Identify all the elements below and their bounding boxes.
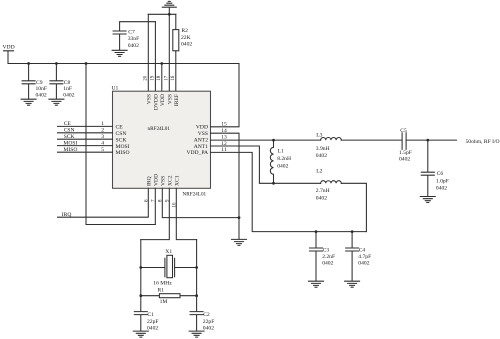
svg-text:CE: CE [116,125,124,131]
capacitor C3 [310,232,323,281]
svg-text:MISO: MISO [63,147,77,153]
svg-text:CE: CE [64,121,72,127]
wire top ground bus [148,13,176,15]
svg-text:MOSI: MOSI [63,140,77,146]
svg-text:VDD: VDD [160,94,166,106]
wire ANT1 net [211,146,321,183]
op-amp U1 body (nRF24L01 IC) [113,91,211,188]
wire RF output [406,139,456,141]
svg-text:22pF: 22pF [203,319,215,325]
svg-text:C5: C5 [400,128,407,134]
svg-text:18: 18 [157,75,162,81]
capacitor C7 [113,22,155,50]
svg-text:0402: 0402 [316,153,327,159]
svg-text:1nF: 1nF [63,86,72,92]
svg-text:1M: 1M [160,299,168,305]
svg-text:ANT2: ANT2 [194,137,208,143]
wire MOSI [58,145,113,147]
wire crystal left leg [140,240,142,312]
wire pin 7 VDD stub [154,188,156,224]
svg-text:nRF24L01: nRF24L01 [148,126,171,132]
svg-text:1: 1 [101,121,104,127]
svg-text:4.7pF: 4.7pF [358,254,371,260]
svg-text:X1: X1 [165,249,172,255]
svg-text:XC2: XC2 [167,175,173,186]
svg-text:16: 16 [171,75,176,81]
capacitor C5 [402,133,406,150]
capacitor C9 [22,64,35,100]
node PA-C3 [315,230,318,233]
svg-text:C3: C3 [323,247,330,253]
wire pin 8 VSS to ground node [162,188,239,217]
svg-text:VSS: VSS [160,176,166,186]
svg-text:33nF: 33nF [128,36,140,42]
wire pin 15 VDD to rail [211,64,240,127]
ground under C1 [133,331,148,337]
node rail-drop [85,62,88,65]
wire pin 10 XC1 [176,188,196,239]
svg-text:C9: C9 [36,80,43,86]
wire L2 to PA net [341,183,366,231]
wire VDD drop to pin 7 [86,64,155,225]
resistor R2 [175,14,177,29]
svg-text:VDD_PA: VDD_PA [186,150,208,156]
svg-text:0402: 0402 [203,326,214,332]
svg-text:SCK: SCK [116,137,127,143]
svg-text:20: 20 [144,75,149,81]
svg-text:0402: 0402 [358,261,369,267]
svg-text:5: 5 [101,147,104,153]
svg-text:U1: U1 [112,86,119,92]
svg-text:0402: 0402 [277,163,288,169]
ground under C2 [189,331,204,337]
svg-text:C4: C4 [359,247,366,253]
svg-text:DVDD: DVDD [153,94,159,110]
node rail-C8 [55,62,58,65]
svg-text:0402: 0402 [36,92,47,98]
svg-text:8.2nH: 8.2nH [277,156,291,162]
svg-text:C2: C2 [203,312,210,318]
svg-text:ANT1: ANT1 [194,144,208,150]
node X1-right [195,266,198,269]
svg-text:2: 2 [101,128,104,134]
svg-text:12: 12 [221,141,227,147]
wire ANT2 net [211,139,321,141]
svg-text:19: 19 [151,75,156,81]
capacitor C2 [190,312,203,331]
svg-text:VDD: VDD [153,174,159,186]
node ANT2-L1 [272,139,275,142]
svg-text:L2: L2 [316,168,322,174]
svg-text:VDD: VDD [3,45,15,51]
svg-text:17: 17 [165,75,170,81]
svg-text:XC1: XC1 [174,175,180,186]
node rail-pin18 [160,62,163,65]
svg-text:0402: 0402 [63,92,74,98]
svg-text:0402: 0402 [436,186,447,192]
node C5-C6 [426,139,429,142]
wire VDD rail [8,63,239,65]
svg-text:VSS: VSS [146,94,152,104]
svg-text:2.2nF: 2.2nF [322,254,335,260]
svg-text:11: 11 [221,147,227,153]
inductor L1 [270,140,273,183]
svg-text:IREF: IREF [174,94,180,106]
node VSS-ground [238,216,241,219]
ground under C4 [345,281,360,287]
svg-text:0402: 0402 [147,326,158,332]
svg-text:IRQ: IRQ [146,176,152,186]
ground under C3 [309,281,324,287]
node rail-C9 [27,62,30,65]
wire pin 17 VSS to top ground [168,14,170,91]
svg-text:VDD: VDD [196,125,208,131]
svg-text:0402: 0402 [181,41,192,47]
wire SCK [58,138,113,140]
svg-text:VSS: VSS [167,94,173,104]
svg-text:VSS: VSS [198,131,208,137]
svg-text:0402: 0402 [128,43,139,49]
ground node B [232,239,247,245]
wire pin 9 XC2 [141,188,170,239]
wire pin 20 VSS to top ground [147,14,149,91]
ground under C9 [21,99,36,105]
svg-text:CSN: CSN [64,128,75,134]
wire MISO [58,151,113,153]
svg-text:1.5pF: 1.5pF [399,150,412,156]
svg-text:1.0pF: 1.0pF [436,178,449,184]
svg-text:4: 4 [101,140,104,146]
wire IRQ [58,188,149,217]
svg-text:R2: R2 [181,28,188,34]
wire L3 to C5 [341,139,402,141]
node ANT1-L1 [272,182,275,185]
crystal X1 [141,258,197,276]
inductor L2 [321,181,342,184]
wire CE [58,125,113,127]
svg-text:10: 10 [172,202,177,208]
svg-text:0402: 0402 [399,157,410,163]
svg-text:0402: 0402 [316,196,327,202]
svg-text:NRF24L01: NRF24L01 [183,191,207,197]
capacitor C4 [346,232,359,281]
capacitor C6 [421,140,434,196]
ground under C7 [112,50,127,56]
ground top (inverted) [162,1,176,14]
wire pin 19 DVDD to C7 [154,22,156,92]
svg-text:IRQ: IRQ [62,212,72,218]
node top-ground [168,13,171,16]
capacitor C1 [134,312,147,331]
svg-text:16 MHz: 16 MHz [153,280,172,286]
svg-text:10nF: 10nF [36,86,48,92]
inductor L3 [321,138,342,141]
resistor R1 [141,295,197,297]
svg-text:14: 14 [221,128,227,134]
node PA-C4 [351,230,354,233]
svg-text:L1: L1 [278,149,284,155]
ground under C6 [420,197,435,203]
svg-text:C6: C6 [437,171,444,177]
svg-text:SCK: SCK [64,134,75,140]
svg-text:50ohm, RF I/O: 50ohm, RF I/O [466,139,500,145]
svg-text:15: 15 [221,122,227,128]
node R1-right [195,294,198,297]
node R1-left [139,294,142,297]
svg-text:CSN: CSN [116,131,127,137]
capacitor C8 [50,64,63,100]
wire CSN [58,132,113,134]
wire pin 14 VSS vertical [211,133,240,239]
svg-text:13: 13 [221,134,227,140]
svg-text:0402: 0402 [322,261,333,267]
svg-text:C8: C8 [64,80,71,86]
wire VDD_PA net [211,152,367,231]
svg-text:22pF: 22pF [147,319,159,325]
svg-text:C1: C1 [147,312,154,318]
svg-text:C7: C7 [128,30,135,36]
svg-text:22K: 22K [181,35,191,41]
node X1-left [139,266,142,269]
svg-text:L3: L3 [316,133,322,139]
power symbol VDD [4,51,14,64]
svg-text:MISO: MISO [116,150,130,156]
svg-text:2.7nH: 2.7nH [316,188,330,194]
svg-text:3.9nH: 3.9nH [316,146,330,152]
svg-text:MOSI: MOSI [116,144,130,150]
ground under C8 [49,99,64,105]
wire pin 18 VDD to rail [161,64,163,92]
svg-text:3: 3 [101,134,104,140]
svg-text:R1: R1 [158,288,165,294]
wire crystal right leg [196,240,198,312]
